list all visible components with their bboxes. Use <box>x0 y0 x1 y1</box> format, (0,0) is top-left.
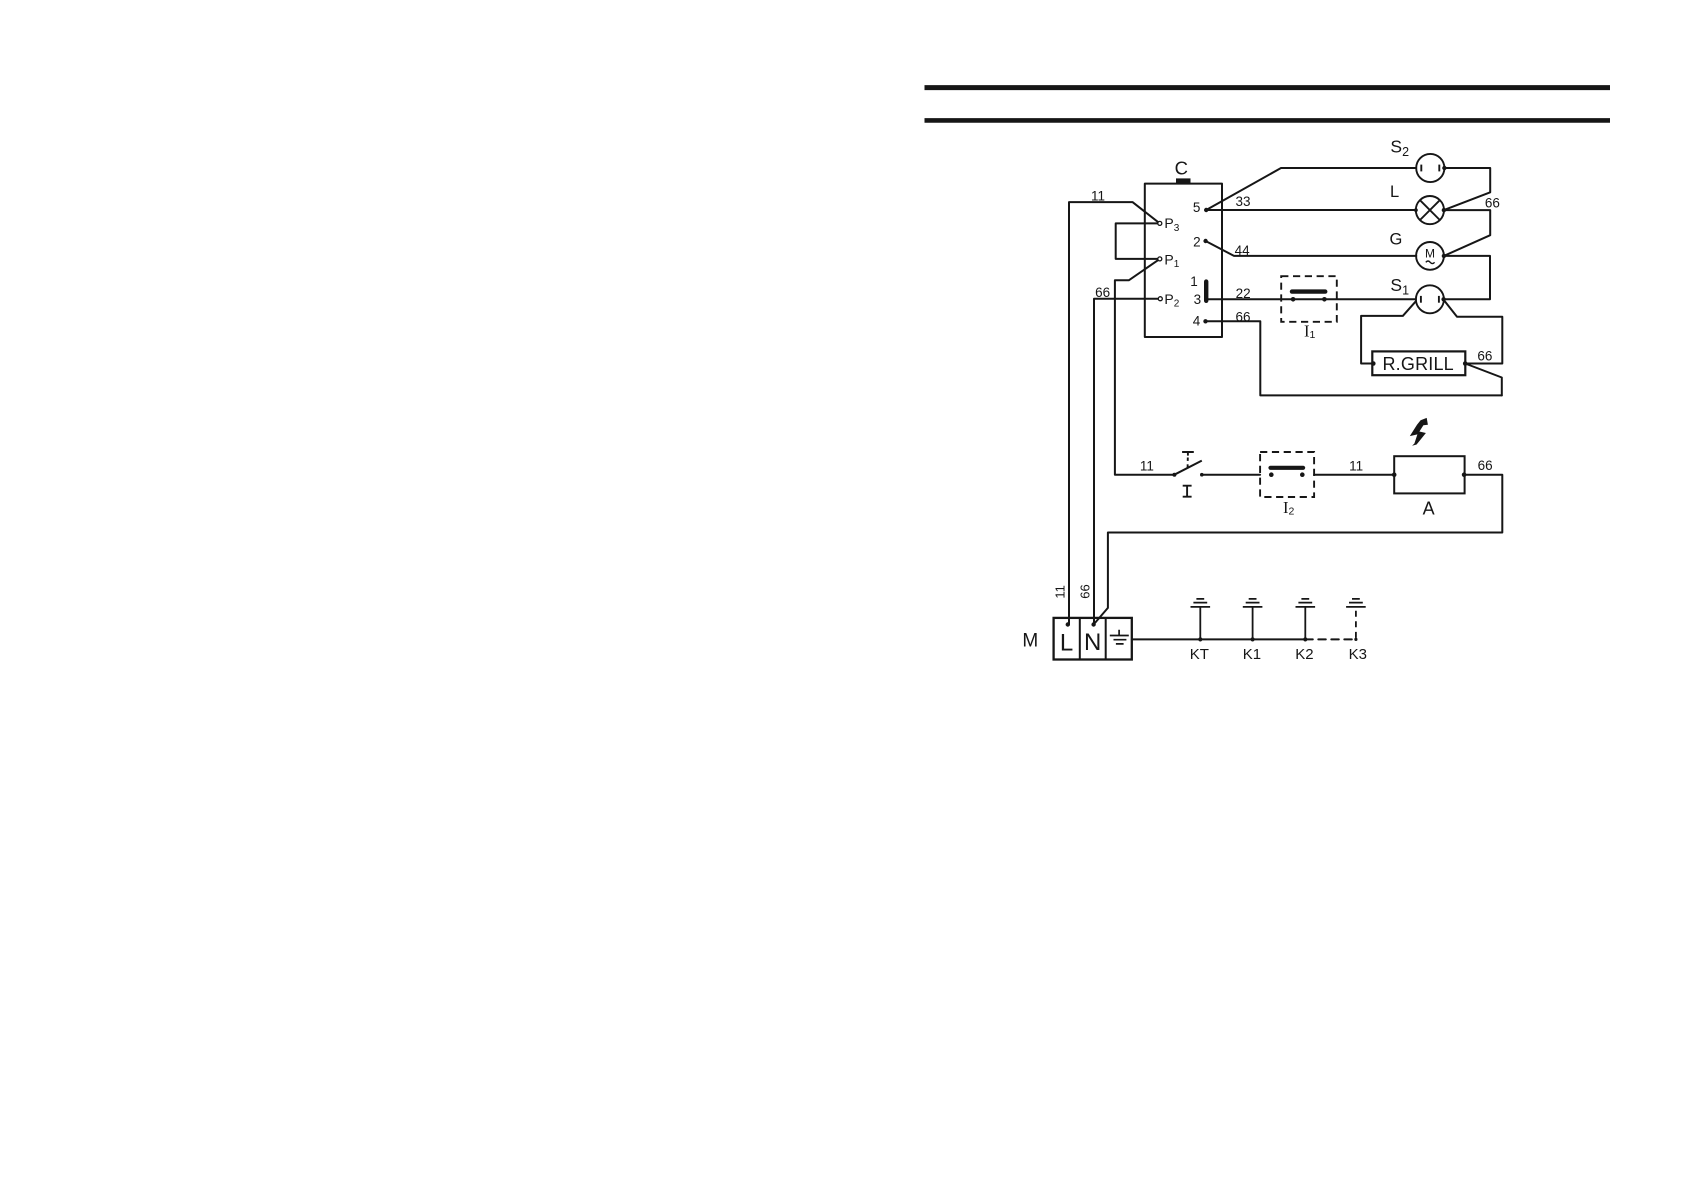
junction switch I pivot <box>1172 473 1176 477</box>
svg-text:44: 44 <box>1235 243 1251 258</box>
junction S2 right <box>1442 166 1446 170</box>
I2 contact bar <box>1271 466 1304 470</box>
svg-text:K2: K2 <box>1295 646 1313 663</box>
wire L right to G right <box>1444 210 1490 256</box>
wire pin2 to motor G <box>1206 241 1417 256</box>
wire pin3 to socket S1 through I1 <box>1206 298 1416 300</box>
commutator switch C box <box>1145 184 1222 337</box>
svg-text:5: 5 <box>1193 200 1201 215</box>
svg-text:S1: S1 <box>1390 275 1409 298</box>
wire A right down and back to N terminal <box>1094 475 1503 625</box>
I1 contact bar <box>1292 289 1325 293</box>
header rule bottom <box>925 118 1611 123</box>
junction K2 <box>1303 637 1307 641</box>
svg-text:K3: K3 <box>1349 646 1367 663</box>
motor G <box>1416 242 1444 270</box>
lightning bolt <box>1410 418 1428 446</box>
svg-text:11: 11 <box>1349 459 1363 474</box>
wire S1 left to R.GRILL left <box>1361 301 1416 363</box>
svg-text:A: A <box>1423 499 1435 519</box>
svg-text:S2: S2 <box>1390 137 1409 160</box>
label I switch (drawn serif I) <box>1183 486 1192 497</box>
remote switch I2 dashed box <box>1260 452 1314 497</box>
junction L left <box>1414 208 1418 212</box>
R.GRILL resistor box <box>1372 351 1465 375</box>
wire bracket P3 to P1 <box>1116 223 1160 259</box>
svg-text:66: 66 <box>1095 285 1110 300</box>
junction L right <box>1442 208 1446 212</box>
pin 1-3 moving contact bar <box>1204 282 1208 301</box>
svg-text:P2: P2 <box>1164 291 1179 310</box>
svg-text:K1: K1 <box>1243 646 1261 663</box>
socket S2 <box>1416 154 1444 182</box>
ground K3 (dashed stem) <box>1355 607 1357 638</box>
junction pin 3 <box>1204 297 1208 301</box>
svg-text:L: L <box>1390 183 1399 201</box>
junction G right <box>1442 254 1446 258</box>
junction K1 <box>1251 637 1255 641</box>
svg-text:66: 66 <box>1078 584 1093 598</box>
earth bus wire <box>1132 638 1306 640</box>
header rule top <box>925 85 1611 90</box>
socket S1 <box>1416 285 1444 313</box>
wire 11 rail: vertical to L terminal, top corner, diagonal to P3 <box>1069 202 1160 624</box>
svg-text:M: M <box>1022 631 1038 652</box>
junction N terminal <box>1091 622 1095 626</box>
svg-text:11: 11 <box>1053 585 1068 599</box>
svg-text:4: 4 <box>1193 313 1201 328</box>
junction switch I contact <box>1200 473 1204 477</box>
junction pin 5 <box>1204 208 1208 212</box>
motor G tilde mark <box>1426 261 1435 264</box>
junction I1 left <box>1291 297 1296 302</box>
svg-text:N: N <box>1084 629 1101 656</box>
svg-text:66: 66 <box>1485 195 1500 210</box>
wire pin4 return to right rail <box>1206 321 1502 395</box>
wire switch I contact to I2 <box>1202 474 1260 476</box>
C index mark (filled) <box>1176 178 1191 183</box>
svg-text:I2: I2 <box>1283 498 1295 518</box>
junction pin 4 <box>1203 319 1207 323</box>
svg-text:3: 3 <box>1194 292 1202 307</box>
junction I2 left <box>1269 472 1274 477</box>
wire pin5 to socket S2 <box>1206 168 1416 210</box>
ground KT <box>1191 599 1211 640</box>
remote switch I1 dashed box <box>1281 276 1337 322</box>
junction R.GRILL left <box>1371 361 1376 366</box>
svg-text:C: C <box>1175 157 1188 178</box>
wire G right down to S1 right <box>1444 256 1490 299</box>
svg-text:G: G <box>1390 231 1403 249</box>
earth symbol in terminal block <box>1110 630 1129 644</box>
ground K1 <box>1243 599 1263 640</box>
svg-text:M: M <box>1425 246 1435 260</box>
svg-text:I1: I1 <box>1304 322 1316 342</box>
svg-text:P3: P3 <box>1164 215 1179 234</box>
svg-text:R.GRILL: R.GRILL <box>1382 354 1453 374</box>
junction K3 <box>1354 638 1357 641</box>
wire 66 rail: vertical to N terminal, to P2 <box>1094 299 1160 625</box>
junction S1 right <box>1441 297 1445 301</box>
wire pin5 to lamp L <box>1206 209 1416 211</box>
switch I thermostat T mark <box>1182 452 1194 456</box>
svg-text:22: 22 <box>1236 286 1251 301</box>
junction pin 2 <box>1203 239 1207 243</box>
svg-text:1: 1 <box>1190 274 1198 289</box>
switch I thermostat dashed link <box>1187 458 1189 469</box>
lamp L <box>1416 196 1444 224</box>
svg-text:11: 11 <box>1140 459 1154 474</box>
junction L terminal <box>1066 622 1070 626</box>
contact P1 (open) <box>1158 257 1162 261</box>
ground K2 <box>1296 599 1316 640</box>
junction A left <box>1392 472 1397 477</box>
terminal block M <box>1054 618 1132 660</box>
wire S2 right to L right <box>1444 168 1490 210</box>
relay box A <box>1394 456 1464 493</box>
svg-text:66: 66 <box>1478 458 1493 473</box>
wire R.GRILL right down to pin4 return <box>1465 364 1502 396</box>
wire P1 down to switch I row <box>1115 259 1175 475</box>
junction I2 right <box>1300 472 1305 477</box>
junction R.GRILL right <box>1463 361 1468 366</box>
wire I2 to relay A <box>1314 474 1394 476</box>
wire S1 right to R.GRILL right <box>1444 300 1503 364</box>
svg-text:33: 33 <box>1235 194 1250 209</box>
svg-text:L: L <box>1060 629 1073 656</box>
switch I blade <box>1174 461 1201 475</box>
svg-text:11: 11 <box>1091 188 1105 203</box>
contact P3 (open) <box>1158 221 1162 225</box>
svg-text:66: 66 <box>1235 309 1250 324</box>
svg-text:P1: P1 <box>1164 251 1179 270</box>
junction KT <box>1198 637 1202 641</box>
earth bus dashed segment to K3 <box>1305 638 1356 640</box>
junction A right <box>1462 472 1467 477</box>
contact P2 (open) <box>1158 297 1162 301</box>
svg-text:KT: KT <box>1190 646 1209 663</box>
svg-text:66: 66 <box>1477 348 1492 363</box>
svg-text:2: 2 <box>1193 234 1201 249</box>
junction I1 right <box>1322 297 1327 302</box>
